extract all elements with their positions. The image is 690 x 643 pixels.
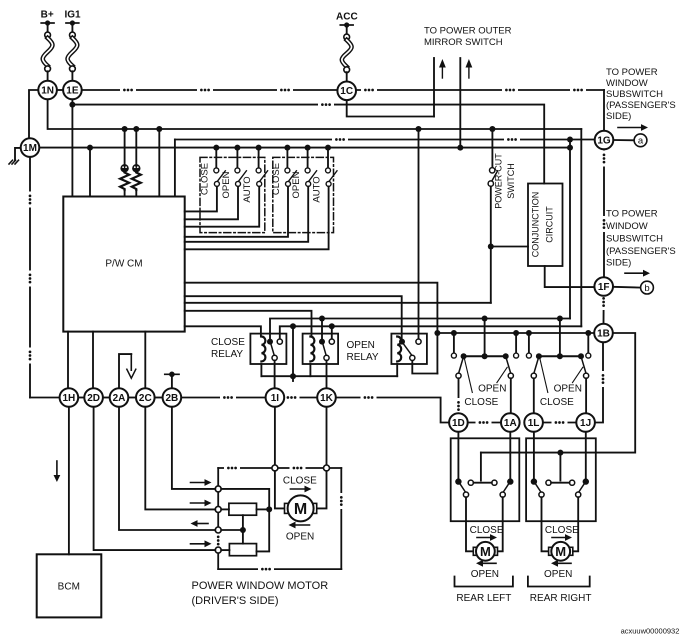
svg-text:REAR RIGHT: REAR RIGHT bbox=[530, 593, 592, 604]
svg-text:AUTO: AUTO bbox=[242, 176, 253, 202]
svg-text:RELAY: RELAY bbox=[347, 352, 379, 363]
svg-text:acxuuw00000932: acxuuw00000932 bbox=[621, 627, 680, 636]
svg-text:M: M bbox=[294, 501, 307, 518]
svg-text:2A: 2A bbox=[113, 393, 126, 404]
svg-text:OPEN: OPEN bbox=[221, 171, 232, 198]
svg-text:BCM: BCM bbox=[58, 582, 80, 593]
svg-text:CLOSE: CLOSE bbox=[545, 525, 579, 536]
svg-text:TO POWER: TO POWER bbox=[606, 209, 658, 220]
svg-text:OPEN: OPEN bbox=[478, 384, 506, 395]
svg-text:1B: 1B bbox=[597, 328, 610, 339]
svg-text:SIDE): SIDE) bbox=[606, 111, 631, 122]
svg-text:SWITCH: SWITCH bbox=[506, 163, 516, 199]
svg-text:1J: 1J bbox=[580, 418, 591, 429]
svg-text:WINDOW: WINDOW bbox=[606, 78, 648, 89]
svg-text:1K: 1K bbox=[320, 393, 334, 404]
svg-text:b: b bbox=[644, 283, 649, 294]
svg-text:SUBSWITCH: SUBSWITCH bbox=[606, 89, 663, 100]
svg-text:1N: 1N bbox=[41, 85, 54, 96]
svg-text:CLOSE: CLOSE bbox=[540, 397, 574, 408]
svg-text:1I: 1I bbox=[271, 393, 280, 404]
svg-text:OPEN: OPEN bbox=[554, 384, 582, 395]
svg-text:CIRCUIT: CIRCUIT bbox=[545, 206, 555, 243]
svg-text:POWER WINDOW MOTOR: POWER WINDOW MOTOR bbox=[192, 580, 329, 592]
svg-text:2D: 2D bbox=[87, 393, 100, 404]
svg-text:MIRROR SWITCH: MIRROR SWITCH bbox=[424, 37, 503, 48]
svg-text:OPEN: OPEN bbox=[544, 569, 572, 580]
svg-text:2B: 2B bbox=[166, 393, 179, 404]
svg-text:(PASSENGER'S: (PASSENGER'S bbox=[606, 246, 676, 257]
svg-text:SIDE): SIDE) bbox=[606, 258, 631, 269]
svg-text:CLOSE: CLOSE bbox=[211, 337, 245, 348]
svg-text:CLOSE: CLOSE bbox=[470, 525, 504, 536]
svg-text:a: a bbox=[638, 136, 644, 147]
svg-text:1M: 1M bbox=[23, 143, 37, 154]
svg-text:ACC: ACC bbox=[336, 12, 358, 23]
svg-text:P/W CM: P/W CM bbox=[105, 259, 142, 270]
svg-text:B+: B+ bbox=[41, 10, 54, 21]
svg-text:OPEN: OPEN bbox=[291, 171, 302, 198]
svg-text:M: M bbox=[480, 544, 491, 559]
svg-text:RELAY: RELAY bbox=[211, 349, 243, 360]
svg-text:1E: 1E bbox=[66, 85, 79, 96]
svg-text:M: M bbox=[555, 544, 566, 559]
svg-text:REAR LEFT: REAR LEFT bbox=[456, 593, 511, 604]
svg-text:CLOSE: CLOSE bbox=[283, 476, 317, 487]
svg-text:1H: 1H bbox=[63, 393, 76, 404]
svg-text:CLOSE: CLOSE bbox=[271, 163, 282, 195]
svg-text:POWER-CUT: POWER-CUT bbox=[494, 153, 504, 209]
svg-text:1F: 1F bbox=[598, 282, 610, 293]
svg-text:1L: 1L bbox=[528, 418, 540, 429]
svg-text:1C: 1C bbox=[340, 86, 353, 97]
svg-text:TO POWER: TO POWER bbox=[606, 67, 658, 78]
svg-text:WINDOW: WINDOW bbox=[606, 221, 648, 232]
svg-text:IG1: IG1 bbox=[65, 10, 82, 21]
svg-text:TO POWER OUTER: TO POWER OUTER bbox=[424, 26, 512, 37]
svg-text:OPEN: OPEN bbox=[347, 340, 375, 351]
svg-text:SUBSWITCH: SUBSWITCH bbox=[606, 234, 663, 245]
svg-text:CLOSE: CLOSE bbox=[464, 397, 498, 408]
svg-text:CLOSE: CLOSE bbox=[200, 163, 211, 195]
svg-text:(DRIVER'S SIDE): (DRIVER'S SIDE) bbox=[192, 595, 279, 607]
svg-text:AUTO: AUTO bbox=[311, 176, 322, 202]
svg-text:(PASSENGER'S: (PASSENGER'S bbox=[606, 100, 676, 111]
svg-text:1D: 1D bbox=[452, 418, 465, 429]
svg-text:1A: 1A bbox=[504, 418, 517, 429]
svg-text:1G: 1G bbox=[597, 135, 611, 146]
svg-text:CONJUNCTION: CONJUNCTION bbox=[531, 192, 541, 258]
svg-text:OPEN: OPEN bbox=[471, 569, 499, 580]
svg-text:OPEN: OPEN bbox=[286, 532, 314, 543]
svg-text:2C: 2C bbox=[139, 393, 152, 404]
